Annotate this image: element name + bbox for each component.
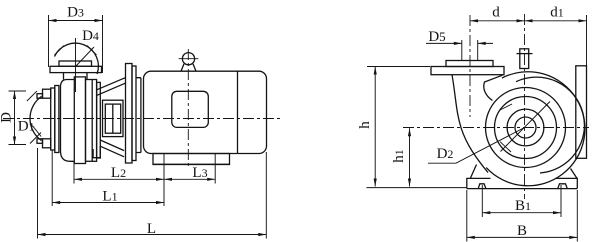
- motor front face: [136, 78, 141, 153]
- rear bracket rectangle: [576, 66, 587, 159]
- casing circle c2: [507, 109, 544, 146]
- casing slab inner line: [91, 80, 93, 162]
- dimension d1 arrows: [525, 19, 587, 22]
- dimension L2 line: [74, 178, 164, 180]
- dimension d extension: [586, 15, 588, 66]
- dimension L3 line: [164, 178, 215, 180]
- dimension B1 extension lines: [482, 185, 561, 217]
- dimension d/d1 line: [470, 20, 587, 22]
- discharge neck: [64, 73, 88, 80]
- casing rear slab: [97, 82, 101, 158]
- D4 leader diagonal: [76, 47, 95, 67]
- dimension L2/L1/L3 extension lines: [38, 148, 267, 239]
- terminal box: [172, 91, 209, 127]
- suction flange plate B: [55, 86, 59, 153]
- bearing housing mid line: [112, 104, 114, 133]
- D1 arc tick lower: [30, 133, 41, 144]
- suction stub bottom: [37, 139, 43, 144]
- dimension h1 line: [409, 128, 411, 186]
- svg-text:d1: d1: [550, 5, 564, 21]
- casing cover (left slab with rounded corners): [61, 80, 75, 162]
- base bottom: [467, 188, 578, 190]
- svg-text:D5: D5: [428, 29, 445, 45]
- casing circle c4: [486, 88, 566, 168]
- dimension B line: [467, 236, 578, 238]
- svg-text:h: h: [357, 121, 373, 129]
- D1 arc tick upper: [27, 91, 37, 101]
- dimension D3 extension lines: [49, 15, 103, 73]
- motor end seam: [237, 71, 239, 153]
- motor body: [144, 71, 267, 153]
- svg-text:d: d: [492, 5, 500, 21]
- discharge flange raised face: [59, 61, 92, 66]
- svg-text:D: D: [0, 112, 14, 123]
- volute spiral inner wall: [516, 77, 584, 173]
- svg-text:L1: L1: [102, 189, 117, 205]
- bearing housing inner: [105, 104, 120, 133]
- eyebolt base legs: [181, 64, 196, 71]
- dimension h line: [374, 67, 376, 187]
- dimension L line: [38, 234, 267, 236]
- discharge centerline: [469, 15, 471, 117]
- motor vertical centerline: [187, 49, 189, 168]
- top plug stem: [520, 49, 529, 69]
- dimension D3 line: [49, 20, 103, 22]
- bearing housing outer: [103, 100, 124, 136]
- svg-text:D4: D4: [82, 28, 99, 44]
- top plug hex line: [517, 53, 533, 55]
- discharge flange plate: [431, 67, 504, 75]
- dimension L1 line: [52, 202, 164, 204]
- svg-text:D1: D1: [18, 119, 35, 135]
- dimension h extension top: [367, 66, 430, 68]
- bracket foot: [93, 146, 100, 158]
- dimension D5 arrows: [454, 42, 486, 45]
- svg-text:D3: D3: [67, 5, 84, 21]
- 45-degree tick lower-left: [500, 142, 511, 152]
- motor mounting flange plate 2: [132, 66, 136, 161]
- eyebolt horizontal crosshair: [179, 58, 199, 60]
- svg-text:B: B: [517, 223, 527, 239]
- dimension L2 arrows: [74, 178, 164, 181]
- right view vertical centerline: [524, 14, 526, 199]
- svg-text:h1: h1: [391, 149, 407, 163]
- dimension L arrows: [38, 233, 267, 236]
- casing circle c1: [515, 117, 536, 138]
- casing body slab: [86, 80, 97, 162]
- 45-degree tick upper-left: [500, 104, 512, 110]
- suction flange boss bottom: [43, 139, 51, 148]
- svg-text:L3: L3: [192, 165, 207, 181]
- discharge flange vertical centerline: [75, 38, 77, 92]
- bracket upper braces: [97, 78, 125, 96]
- svg-text:L: L: [147, 221, 156, 237]
- suction flange bolt-circle arc D1: [30, 96, 41, 140]
- motor feet band bottom: [153, 163, 230, 165]
- dimension D3 arrows: [49, 19, 103, 22]
- pump/motor horizontal centerline: [3, 118, 283, 120]
- right view horizontal centerline: [403, 127, 589, 129]
- discharge flange bolt-circle arc: [55, 43, 99, 74]
- dimension B arrows: [467, 236, 578, 239]
- casing flange ring slab: [74, 77, 85, 164]
- dimension D extension lines: [9, 91, 27, 145]
- dimension D line: [14, 91, 16, 145]
- dimension D arrows: [13, 91, 16, 145]
- volute tongue: [484, 75, 503, 100]
- motor feet band: [153, 154, 230, 165]
- dimension d arrows: [470, 19, 525, 22]
- D2 leader and 45-degree centerline: [428, 102, 550, 164]
- motor mounting flange plate 1: [126, 64, 133, 164]
- discharge raised face: [446, 61, 493, 67]
- dimension B1 line: [482, 212, 561, 214]
- arc tick upper-right: [87, 46, 97, 56]
- bracket lower braces: [100, 140, 124, 157]
- dimension L1 arrows: [52, 201, 164, 204]
- dimension D5 extension lines: [462, 40, 478, 61]
- volute outer wall arc: [486, 72, 585, 186]
- dimension L3 arrows: [164, 178, 215, 181]
- discharge left wall: [452, 75, 488, 173]
- left foot relief: [478, 184, 486, 189]
- dimension h1 arrows: [408, 128, 411, 186]
- casing circle c3: [495, 97, 557, 159]
- suction flange plate A: [51, 88, 55, 150]
- right foot relief: [558, 184, 568, 189]
- suction stub top: [37, 94, 43, 99]
- suction flange boss top: [43, 89, 51, 98]
- dimension h arrows: [374, 67, 377, 187]
- discharge flange plate: [50, 66, 102, 72]
- left foot: [467, 165, 491, 189]
- svg-text:B1: B1: [515, 198, 531, 214]
- eyebolt ring: [182, 53, 194, 65]
- D1 leader: [32, 126, 41, 137]
- svg-text:D2: D2: [437, 146, 454, 162]
- ground line: [367, 187, 467, 189]
- right foot: [556, 169, 578, 189]
- dimension D5 tails: [426, 42, 493, 44]
- arc tick upper-left: [55, 46, 65, 56]
- dimension B1 arrows: [482, 211, 561, 214]
- dimension B extension lines: [467, 190, 578, 242]
- svg-text:L2: L2: [111, 165, 126, 181]
